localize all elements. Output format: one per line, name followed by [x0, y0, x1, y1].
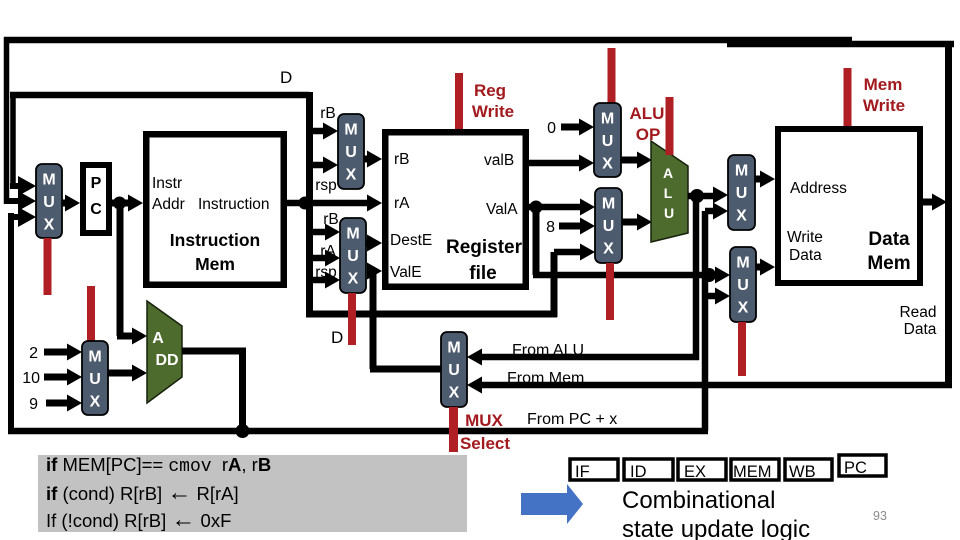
node arrow into MUX4 input 1	[306, 224, 340, 241]
label From ALU	[512, 342, 584, 359]
svg-text:file: file	[469, 263, 496, 284]
mark red bar below MUX9	[449, 407, 458, 452]
wire MUX2 output to ADD	[108, 365, 147, 382]
wire valB output to MUX5	[529, 160, 581, 167]
mark red bar below MUX4	[348, 293, 356, 345]
block Data Mem	[778, 129, 920, 283]
svg-text:U: U	[448, 362, 460, 379]
node arrow into MUX3 input 1	[306, 123, 338, 140]
wire ValA lower horizontal to MUX8	[533, 272, 717, 279]
mark red bar below MUX6	[606, 263, 614, 320]
label MUX Select	[460, 411, 510, 453]
svg-text:X: X	[348, 271, 359, 288]
svg-text:ID: ID	[630, 463, 647, 481]
node arrow into MUX4 input 2	[306, 250, 340, 267]
wire PC output to Instruction Mem	[112, 195, 143, 212]
svg-text:P: P	[91, 175, 102, 192]
wire MUX5 output to ALU	[621, 152, 652, 169]
svg-text:ALU: ALU	[630, 104, 665, 123]
label Combinational state update logic	[622, 487, 810, 540]
node arrow into ADD input 1	[132, 328, 147, 345]
alu U1	[651, 141, 688, 242]
wire right frame vertical (read data down)	[945, 41, 952, 388]
svg-text:From ALU: From ALU	[512, 342, 584, 359]
svg-text:M: M	[344, 122, 357, 139]
svg-text:0: 0	[547, 120, 556, 137]
node arrow into MUX8 input 2	[705, 288, 730, 305]
svg-text:state update logic: state update logic	[622, 516, 810, 540]
svg-text:U: U	[603, 218, 615, 235]
svg-text:10: 10	[22, 370, 40, 387]
svg-text:IF: IF	[575, 463, 590, 481]
label ALU OP	[630, 104, 665, 144]
svg-text:X: X	[603, 241, 614, 258]
label Register file title	[446, 237, 523, 284]
node junction ALU output	[690, 189, 704, 203]
svg-text:ValA: ValA	[486, 201, 518, 218]
svg-text:M: M	[602, 196, 615, 213]
node arrow into MUX6 input 1	[580, 199, 595, 216]
mark red bar above MUX5	[608, 48, 616, 103]
wire MUX8 output to Data Mem Write Data	[756, 259, 775, 276]
svg-text:Reg: Reg	[474, 81, 506, 100]
label rB above MUX3 input	[320, 105, 336, 122]
svg-text:D: D	[331, 328, 343, 347]
register IF	[570, 459, 618, 481]
label ValA port	[486, 201, 518, 218]
svg-text:Addr: Addr	[152, 196, 185, 213]
svg-text:X: X	[736, 208, 747, 225]
label page number 93	[873, 509, 887, 523]
node arrow into MUX6 input 3	[580, 244, 595, 261]
svg-text:WB: WB	[789, 463, 816, 481]
svg-text:Write: Write	[863, 96, 905, 115]
label constant 2	[29, 345, 38, 362]
wire From ALU horizontal into MUX9	[467, 349, 699, 366]
svg-text:U: U	[89, 371, 101, 388]
node junction instruction/D wire	[299, 197, 312, 210]
wire From ALU vertical drop	[693, 196, 700, 360]
wire D feedback horizontal	[10, 92, 310, 99]
svg-text:Address: Address	[790, 180, 847, 197]
svg-text:L: L	[664, 185, 673, 201]
svg-text:Write: Write	[472, 102, 514, 121]
wire From Mem horizontal	[467, 377, 952, 394]
label Reg Write	[472, 81, 514, 121]
wire MUX9 output up to ValE	[370, 268, 442, 373]
label D (lower)	[331, 328, 343, 347]
svg-text:Write: Write	[787, 229, 823, 246]
wire PC output vertical branch down to ADD	[117, 203, 135, 340]
wire MUX3 output to register file rB	[364, 151, 382, 168]
mark red bar below MUX1	[44, 238, 52, 295]
svg-text:2: 2	[29, 345, 38, 362]
block Register file	[385, 132, 526, 287]
svg-text:rB: rB	[394, 151, 410, 168]
wire left frame outer vertical	[4, 37, 24, 204]
label Mem Write	[863, 75, 905, 115]
node arrow into MUX7 input 2	[705, 203, 728, 220]
wire ValA output to MUX6	[529, 204, 581, 211]
mux M5 (aluA select)	[594, 103, 621, 177]
svg-text:U: U	[43, 194, 55, 211]
label Read Data	[899, 304, 936, 338]
wire instruction output	[287, 200, 370, 207]
svg-text:M: M	[735, 163, 748, 180]
svg-text:X: X	[90, 394, 101, 411]
wire MUX4 output to register file DestE	[366, 235, 382, 252]
label rA above MUX4 input 2	[320, 243, 336, 260]
svg-text:valB: valB	[484, 152, 514, 169]
wire ADD output down to bottom frame	[182, 348, 246, 432]
svg-text:M: M	[42, 172, 55, 189]
label rB port	[394, 151, 410, 168]
node arrow constant 2 into MUX2	[44, 344, 82, 361]
svg-text:Read: Read	[899, 304, 936, 321]
svg-text:If (!cond) R[rB] ← 0xF: If (!cond) R[rB] ← 0xF	[46, 506, 231, 533]
wire left inner vertical from D wire	[10, 92, 24, 189]
svg-text:rA: rA	[394, 195, 410, 212]
label Instruction output port	[198, 196, 270, 213]
svg-text:Data: Data	[868, 229, 910, 250]
svg-text:X: X	[44, 217, 55, 234]
label constant 9	[29, 396, 38, 413]
node arrow constant 9 into MUX2	[46, 395, 82, 412]
mux M9 (write back select)	[441, 332, 467, 407]
svg-text:Select: Select	[460, 434, 510, 453]
mux M6 (aluB select)	[595, 188, 622, 263]
label constant 0	[547, 120, 556, 137]
label valB port	[484, 152, 514, 169]
svg-text:X: X	[602, 156, 613, 173]
mux M3 (srcB select)	[338, 114, 364, 189]
svg-text:Combinational: Combinational	[622, 487, 775, 514]
label constant 10	[22, 370, 40, 387]
svg-text:Data: Data	[904, 321, 937, 338]
register WB	[785, 459, 832, 481]
label constant 8	[546, 219, 555, 236]
wire From PC+x vertical riser	[702, 211, 709, 431]
svg-text:rsp: rsp	[315, 177, 337, 194]
label Instr Addr	[152, 175, 185, 213]
svg-text:9: 9	[29, 396, 38, 413]
svg-text:EX: EX	[684, 463, 706, 481]
wire MUX7 output to Data Mem Address	[755, 171, 775, 188]
svg-text:Mem: Mem	[864, 75, 903, 94]
svg-text:Mem: Mem	[867, 253, 910, 274]
svg-text:U: U	[736, 185, 748, 202]
node arrow into register file rA	[367, 195, 382, 212]
wire ALU output to MUX7	[688, 187, 728, 204]
svg-text:X: X	[738, 300, 749, 317]
node arrow into MUX1 input 1	[18, 176, 36, 196]
svg-text:A: A	[152, 330, 164, 347]
svg-text:From Mem: From Mem	[507, 370, 584, 387]
node arrow into MUX1 input 3	[18, 207, 36, 227]
annotation blue arrow	[521, 484, 583, 524]
mark red bar Reg Write	[455, 73, 463, 129]
wire bottom frame (From PC + x)	[8, 428, 708, 435]
svg-text:M: M	[447, 340, 460, 357]
label D (top)	[280, 68, 292, 87]
label From PC + x	[527, 411, 617, 428]
svg-text:M: M	[88, 349, 101, 366]
svg-text:Register: Register	[446, 237, 523, 258]
svg-text:A: A	[663, 165, 673, 181]
wire D vertical drop	[306, 92, 313, 314]
node arrow into MUX5 input 2	[579, 155, 594, 172]
label rsp below MUX3 input	[315, 177, 337, 194]
wire MUX6 output to ALU	[622, 214, 652, 231]
node junction on ValA wire at PCx riser	[702, 268, 716, 282]
svg-text:U: U	[664, 205, 674, 221]
node arrow into MUX8 input 1	[715, 267, 730, 284]
mux M1 (PC select)	[36, 164, 62, 238]
svg-text:U: U	[347, 248, 359, 265]
mux M2 (PC increment select)	[82, 341, 108, 415]
label Data Mem title	[867, 229, 910, 274]
mark red bar below MUX8	[738, 322, 746, 376]
svg-text:Instruction: Instruction	[198, 196, 270, 213]
label From Mem	[507, 370, 584, 387]
label rsp at MUX4 input 3	[315, 264, 337, 281]
mark red bar Mem Write	[844, 68, 852, 126]
node arrow into MUX1 input 2	[18, 191, 36, 211]
node arrow into MUX4 input 3	[306, 272, 340, 289]
svg-text:C: C	[90, 201, 102, 218]
svg-text:M: M	[346, 226, 359, 243]
wire top frame right segment	[727, 41, 954, 48]
wire low horizontal to MUX6 select	[306, 311, 557, 318]
svg-text:93: 93	[873, 509, 887, 523]
wire ValA vertical branch	[533, 207, 540, 275]
svg-text:8: 8	[546, 219, 555, 236]
svg-text:X: X	[449, 385, 460, 402]
svg-text:From PC + x: From PC + x	[527, 411, 617, 428]
node arrow constant 10 into MUX2	[44, 369, 82, 386]
svg-text:M: M	[601, 111, 614, 128]
svg-text:D: D	[280, 68, 292, 87]
node arrow constant 0 into MUX5	[561, 119, 594, 136]
svg-text:U: U	[737, 277, 749, 294]
wire MUX1 output to PC	[62, 195, 80, 212]
svg-text:if (cond) R[rB] ← R[rA]: if (cond) R[rB] ← R[rA]	[46, 479, 239, 506]
wire top frame left segment	[4, 37, 852, 44]
node junction at PC output	[113, 197, 126, 210]
svg-text:U: U	[345, 144, 357, 161]
wire left lower vertical to bottom frame	[8, 213, 24, 434]
label Write Data port	[787, 229, 823, 264]
block Instruction Mem	[146, 134, 284, 285]
annotation code box	[38, 454, 467, 533]
label Instruction Mem title	[170, 230, 260, 274]
wire Data Mem read output to right frame	[923, 194, 947, 211]
register MEM	[731, 459, 779, 481]
register EX	[678, 459, 726, 481]
wire riser to MUX6 input 3	[551, 249, 583, 317]
label rB above MUX4 input 1	[323, 211, 339, 228]
svg-text:X: X	[346, 167, 357, 184]
node arrow constant 8 into MUX6	[559, 218, 595, 235]
label ValE port	[390, 264, 422, 281]
register ID	[624, 459, 673, 481]
mux M4 (dstE select)	[340, 218, 366, 293]
svg-text:OP: OP	[636, 125, 661, 144]
svg-text:ValE: ValE	[390, 264, 422, 281]
node junction ADD output on bottom frame	[236, 424, 250, 438]
svg-text:Mem: Mem	[195, 254, 235, 274]
svg-text:Data: Data	[789, 247, 822, 264]
label DestE port	[390, 232, 432, 249]
svg-text:DD: DD	[155, 352, 178, 369]
svg-text:MEM: MEM	[733, 463, 772, 481]
mux M8 (write data select)	[730, 247, 756, 322]
svg-text:rB: rB	[320, 105, 336, 122]
label rA port	[394, 195, 410, 212]
node arrow into register file ValE	[367, 263, 382, 280]
register PC	[83, 165, 109, 233]
svg-text:DestE: DestE	[390, 232, 432, 249]
svg-text:MUX: MUX	[465, 411, 503, 430]
svg-text:U: U	[602, 133, 614, 150]
svg-text:Instruction: Instruction	[170, 230, 260, 250]
mux M7 (address select)	[728, 155, 755, 230]
svg-text:PC: PC	[844, 459, 867, 477]
mark red bar ALU OP	[666, 97, 674, 155]
svg-text:M: M	[736, 255, 749, 272]
node arrow into MUX3 input 2	[306, 157, 338, 174]
adder ADD	[147, 301, 182, 403]
label Address port	[790, 180, 847, 197]
node junction ValA branch	[530, 201, 543, 214]
svg-text:Instr: Instr	[152, 175, 182, 192]
mark red bar above MUX2	[87, 286, 95, 341]
register PC (state)	[839, 455, 886, 477]
svg-text:if MEM[PC]== cmov rA, rB: if MEM[PC]== cmov rA, rB	[46, 454, 271, 477]
